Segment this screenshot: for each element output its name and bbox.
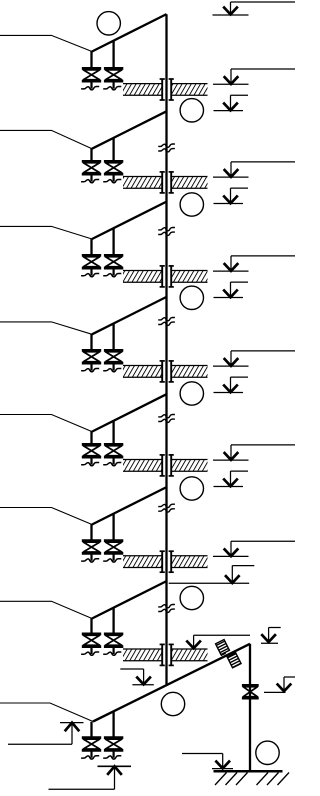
- arrowhead: [224, 169, 239, 177]
- ground marker: [182, 753, 223, 755]
- level tick: [213, 459, 249, 461]
- up marker B (outlet level): [98, 765, 132, 767]
- valve top bar: [82, 349, 101, 352]
- valve top bar: [104, 443, 123, 446]
- floor 6 outlet left: [90, 555, 92, 561]
- floor 6 outlet right: [112, 555, 114, 561]
- label circle floor 3: [180, 286, 203, 309]
- leader: [230, 541, 232, 556]
- floor 1 outlet right: [112, 82, 114, 88]
- leader: [230, 256, 232, 271]
- floor 1 branch drop left: [90, 51, 92, 68]
- floor 3 branch pipe: [92, 202, 167, 239]
- valve top bar: [104, 736, 123, 739]
- arrowhead: [224, 358, 239, 366]
- floor 6 leader line: [0, 508, 92, 525]
- valve top bar: [104, 633, 123, 636]
- floor slab segment: [123, 271, 162, 283]
- arrowhead: [223, 7, 238, 15]
- floor 2 outlet right: [112, 175, 114, 181]
- floor slab segment: [171, 649, 207, 661]
- floor 4 leader line: [0, 322, 92, 334]
- leader: [230, 95, 232, 110]
- pipe sleeve through slab: [161, 266, 163, 287]
- floor 2 branch pipe: [92, 111, 167, 148]
- arrowhead: [224, 452, 239, 460]
- floor 1 leader line: [0, 35, 92, 51]
- floor 5 outlet right: [112, 458, 114, 464]
- floor slab segment: [123, 649, 162, 661]
- floor 1 branch pipe: [92, 14, 167, 51]
- bottom main diagonal pipe: [93, 644, 250, 722]
- valve top bar: [82, 633, 101, 636]
- valve bottom bar: [104, 645, 123, 648]
- valve bottom bar: [104, 80, 123, 83]
- valve bottom bar: [82, 456, 101, 459]
- floor 7 leader line: [0, 601, 92, 618]
- valve bottom bar: [82, 80, 101, 83]
- floor 6 branch drop left: [90, 524, 92, 540]
- level tick: [214, 392, 244, 394]
- arrowhead: [223, 103, 238, 111]
- floor 2 outlet left: [90, 175, 92, 181]
- valve body: [83, 635, 99, 645]
- level tick: [214, 297, 244, 299]
- main riser pipe: [165, 14, 167, 686]
- floor 2 branch drop left: [90, 148, 92, 161]
- floor 7 branch pipe: [92, 581, 167, 618]
- label circle bottom riser: [161, 692, 184, 715]
- floor slab segment: [171, 271, 207, 283]
- floor 7 below-slab marker: [132, 684, 153, 686]
- valve top bar: [82, 539, 101, 542]
- floor slab segment: [171, 366, 207, 378]
- valve bottom bar: [104, 362, 123, 365]
- label circle floor 1: [180, 99, 203, 122]
- floor 5 leader line: [0, 415, 92, 432]
- valve body: [105, 635, 121, 645]
- pipe sleeve through slab: [161, 644, 163, 665]
- leader: [230, 445, 232, 460]
- level tick: [213, 14, 249, 16]
- level tick: [213, 176, 249, 178]
- valve bottom bar: [82, 267, 101, 270]
- drop pipe top marker: [268, 628, 270, 643]
- floor 4 branch drop left: [90, 334, 92, 350]
- valve body: [105, 352, 121, 362]
- floor 2 leader line: [0, 130, 92, 148]
- valve bottom bar: [104, 173, 123, 176]
- leader: [230, 69, 232, 84]
- valve top bar: [82, 67, 101, 70]
- floor 5 branch pipe: [92, 394, 167, 431]
- floor slab segment: [171, 556, 207, 568]
- leader: [230, 377, 232, 392]
- level tick: [213, 365, 249, 367]
- floor 4 branch drop right: [112, 323, 114, 350]
- bottom outlet left: [90, 752, 92, 758]
- valve body: [83, 163, 99, 173]
- bottom branch leader: [0, 703, 93, 722]
- valve bottom bar: [242, 697, 259, 700]
- valve body: [105, 163, 121, 173]
- riser break floor 2: [158, 144, 175, 147]
- leader: [230, 471, 232, 486]
- drop valve marker: [283, 677, 285, 691]
- valve body: [83, 257, 99, 267]
- leader: [230, 162, 232, 177]
- valve body: [83, 739, 99, 749]
- riser break floor 6: [158, 504, 175, 507]
- floor 3 outlet right: [112, 269, 114, 275]
- label circle drop pipe: [256, 741, 279, 764]
- level tick: [214, 203, 244, 205]
- floor 7 branch drop right: [112, 608, 114, 634]
- valve bottom bar: [82, 552, 101, 555]
- pipe sleeve through slab: [161, 79, 163, 100]
- riser label circle top: [97, 12, 120, 35]
- valve bottom bar: [82, 362, 101, 365]
- arrowhead: [223, 385, 238, 393]
- valve body: [105, 257, 121, 267]
- label circle floor 2: [180, 193, 203, 216]
- valve top bar: [104, 254, 123, 257]
- up marker A (bottom branch level): [60, 722, 84, 724]
- floor slab segment: [171, 177, 207, 189]
- floor 3 leader line: [0, 226, 92, 239]
- valve body: [105, 70, 121, 80]
- floor slab segment: [123, 556, 162, 568]
- bottom branch drop left: [90, 722, 92, 738]
- ground line: [214, 770, 283, 773]
- riser break floor 7: [158, 605, 175, 608]
- floor 2 branch drop right: [112, 138, 114, 161]
- floor 4 branch pipe: [92, 297, 167, 334]
- valve top bar: [242, 684, 259, 687]
- level tick: [214, 486, 244, 488]
- flexible connector on diagonal: [215, 637, 241, 670]
- floor 6 branch pipe: [92, 487, 167, 524]
- floor slab segment: [171, 460, 207, 472]
- valve bottom bar: [82, 645, 101, 648]
- level tick: [214, 110, 244, 112]
- floor 3 branch drop left: [90, 239, 92, 256]
- floor 3 branch drop right: [112, 228, 114, 255]
- label circle floor 5: [180, 477, 203, 500]
- valve body: [105, 446, 121, 456]
- pipe sleeve through slab: [161, 361, 163, 382]
- floor 7 outlet right: [112, 648, 114, 654]
- arrowhead: [224, 76, 239, 84]
- arrowhead: [223, 479, 238, 487]
- valve bottom bar: [104, 552, 123, 555]
- valve bottom bar: [104, 749, 123, 752]
- floor 1 branch drop right: [112, 41, 114, 69]
- valve top bar: [82, 443, 101, 446]
- valve top bar: [104, 539, 123, 542]
- valve body: [83, 352, 99, 362]
- ground hatching: [215, 773, 227, 786]
- floor 1 outlet left: [90, 82, 92, 88]
- valve bottom bar: [104, 456, 123, 459]
- floor 7 branch drop left: [90, 618, 92, 634]
- bottom outlet right: [112, 752, 114, 758]
- arrowhead: [223, 290, 238, 298]
- drop pipe vertical: [249, 644, 251, 772]
- valve bottom bar: [82, 173, 101, 176]
- leader: [230, 351, 232, 366]
- valve body: [83, 542, 99, 552]
- floor slab segment: [123, 84, 162, 96]
- valve top bar: [104, 349, 123, 352]
- bottom branch drop right: [112, 711, 114, 737]
- floor 5 branch drop right: [112, 421, 114, 444]
- floor 6 lower marker: [231, 566, 233, 583]
- valve bottom bar: [104, 267, 123, 270]
- arrowhead: [224, 548, 239, 556]
- valve body: [83, 70, 99, 80]
- valve body: [83, 446, 99, 456]
- pipe sleeve through slab: [161, 551, 163, 572]
- leader: [230, 2, 232, 14]
- pipe sleeve through slab: [161, 455, 163, 476]
- floor 4 outlet right: [112, 364, 114, 370]
- valve body: [243, 687, 257, 697]
- valve top bar: [82, 736, 101, 739]
- floor slab segment: [171, 84, 207, 96]
- level tick: [213, 270, 249, 272]
- riser break floor 3: [158, 228, 175, 231]
- label circle floor 4: [180, 382, 203, 405]
- floor 4 outlet left: [90, 364, 92, 370]
- leader: [230, 188, 232, 203]
- riser break floor 5: [158, 414, 175, 417]
- valve top bar: [82, 160, 101, 163]
- floor 3 outlet left: [90, 269, 92, 275]
- level tick: [213, 83, 249, 85]
- floor slab segment: [123, 177, 162, 189]
- valve bottom bar: [82, 749, 101, 752]
- valve body: [105, 542, 121, 552]
- arrowhead: [224, 263, 239, 271]
- floor 5 outlet left: [90, 458, 92, 464]
- leader: [230, 282, 232, 297]
- label circle floor 6: [180, 586, 203, 609]
- valve top bar: [82, 254, 101, 257]
- floor 5 branch drop left: [90, 431, 92, 444]
- floor slab segment: [123, 460, 162, 472]
- pipe sleeve through slab: [161, 172, 163, 193]
- valve top bar: [104, 67, 123, 70]
- riser break floor 4: [158, 317, 175, 320]
- level tick: [213, 555, 249, 557]
- floor 7 slab-top marker with leader to drop pipe: [193, 635, 195, 648]
- valve top bar: [104, 160, 123, 163]
- floor 7 outlet left: [90, 648, 92, 654]
- valve body: [105, 739, 121, 749]
- floor 6 branch drop right: [112, 514, 114, 541]
- floor slab segment: [123, 366, 162, 378]
- floor 6 lower level line: [169, 582, 250, 584]
- arrowhead: [223, 196, 238, 204]
